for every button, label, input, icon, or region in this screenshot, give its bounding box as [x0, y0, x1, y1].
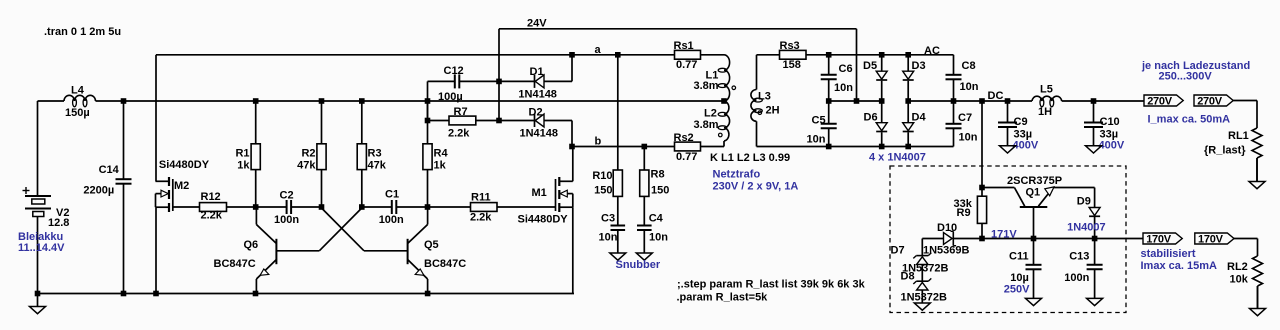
svg-text:D5: D5 [863, 60, 877, 72]
resistor R2 [321, 101, 323, 144]
svg-text:3.8m: 3.8m [694, 80, 719, 92]
net flag 170V load side [1195, 233, 1234, 244]
svg-text:10µ: 10µ [1010, 272, 1029, 284]
junction R9 bottom [979, 236, 985, 242]
svg-text:RL2: RL2 [1227, 261, 1248, 273]
wire M1 source to ground [572, 207, 574, 293]
svg-text:270V: 270V [1197, 95, 1223, 107]
transistor Q5 BC847C [407, 239, 409, 264]
wire D1 to node a [571, 55, 573, 82]
junction transformer center tap [721, 98, 727, 104]
capacitor C10 [1093, 101, 1095, 123]
junction M2 source-ground [153, 291, 159, 297]
junction C14 bottom [121, 291, 127, 297]
svg-text:250V: 250V [1004, 284, 1030, 296]
capacitor C5 [828, 101, 830, 124]
resistor R4 [427, 101, 429, 144]
svg-text:0.77: 0.77 [676, 59, 697, 71]
inductor L4 [64, 95, 96, 101]
dashed box stabiliser [890, 166, 1126, 313]
wire 170V out [1095, 238, 1143, 240]
svg-text:0.77: 0.77 [676, 151, 697, 163]
resistor R3 [361, 101, 363, 144]
ground flag at battery [37, 294, 39, 307]
ground rail [38, 293, 575, 295]
junction C10 top [1091, 98, 1097, 104]
svg-text:D8: D8 [901, 271, 915, 283]
junction node a / R10 [615, 52, 621, 58]
svg-text:Rs2: Rs2 [674, 132, 694, 144]
capacitor C3 [617, 196, 619, 225]
svg-text:47k: 47k [297, 160, 316, 172]
wire node a row [156, 54, 675, 56]
svg-text:{R_last}: {R_last} [1204, 145, 1246, 157]
resistor Rs1 [675, 50, 701, 59]
wire 270V to RL1 [1233, 100, 1257, 102]
diode D4 1N4007 [907, 101, 909, 123]
svg-text:Imax ca. 15mA: Imax ca. 15mA [1141, 260, 1217, 272]
junction R1 bottom [253, 204, 259, 210]
ground flag D8 [921, 290, 923, 303]
svg-text:C4: C4 [649, 212, 664, 224]
resistor R1 [255, 101, 257, 144]
junction D4 bottom [905, 144, 911, 150]
wire M1 drain to node b [572, 147, 574, 182]
resistor Rs3 [780, 50, 807, 59]
capacitor C11 [1033, 239, 1035, 265]
junction D3 top [905, 52, 911, 58]
resistor R10 [617, 55, 619, 170]
wire D2 to node b [571, 121, 573, 147]
junction D5 top [879, 52, 885, 58]
junction node a / D1 [569, 52, 575, 58]
capacitor C12 [454, 74, 456, 88]
ground flag C10 [1093, 128, 1095, 146]
wire 24V vertical [498, 29, 500, 121]
svg-text:D4: D4 [912, 112, 927, 124]
capacitor C14 [123, 101, 125, 179]
junction R3 bottom [359, 204, 365, 210]
svg-text:DC: DC [988, 90, 1004, 102]
junction C5-C6 mid [826, 98, 832, 104]
capacitor C1 [362, 206, 392, 208]
svg-text:Snubber: Snubber [616, 259, 661, 271]
junction R7 left on C12 branch [425, 118, 431, 124]
svg-text:D10: D10 [937, 222, 957, 234]
inductor L1 primary [724, 55, 730, 101]
ground flag C13 [1094, 269, 1096, 298]
junction C5 bottom [826, 144, 832, 150]
wire L2 bottom to Rs2 [723, 141, 725, 147]
transistor Q1 2SCR375P [982, 187, 1014, 189]
resistor R8 [643, 147, 645, 171]
junction R2 bottom [319, 204, 325, 210]
junction C6 top [826, 52, 832, 58]
junction 24V at bridge mid [854, 98, 860, 104]
svg-text:250...300V: 250...300V [1159, 71, 1213, 83]
svg-text:Rs1: Rs1 [674, 40, 694, 52]
svg-text:150: 150 [651, 184, 669, 196]
svg-text:C2: C2 [280, 190, 294, 202]
wire node b row [572, 146, 675, 148]
junction DC / regulator branch [979, 98, 985, 104]
svg-text:10n: 10n [960, 81, 979, 93]
wire 170V to RL2 [1234, 238, 1258, 240]
resistor RL1 {R_last} [1252, 128, 1262, 158]
svg-text:a: a [595, 44, 602, 56]
svg-text:M2: M2 [174, 180, 189, 192]
diode D6 1N4007 [881, 101, 883, 123]
svg-text:.tran 0 1 2m 5u: .tran 0 1 2m 5u [44, 26, 121, 38]
wire DC to R9 [981, 101, 983, 196]
svg-text:K L1 L2 L3 0.99: K L1 L2 L3 0.99 [710, 152, 790, 164]
svg-text:C1: C1 [385, 189, 399, 201]
svg-text:R10: R10 [592, 170, 612, 182]
wire 12V rail to transformer center tap [96, 100, 725, 102]
junction battery-ground [35, 291, 41, 297]
wire 24V drop to bridge mid [856, 29, 858, 101]
svg-text:D1: D1 [530, 66, 544, 78]
net flag 270V load side [1194, 95, 1233, 106]
wire cross-coupling left diagonal to Q5 base [322, 208, 365, 251]
svg-text:;.step param R_last list 39k 9: ;.step param R_last list 39k 9k 6k 3k [677, 279, 866, 291]
svg-text:4 x 1N4007: 4 x 1N4007 [869, 152, 926, 164]
wire M2 drain to node a [155, 55, 157, 182]
transistor Q6 BC847C [275, 239, 277, 264]
svg-text:150µ: 150µ [65, 107, 90, 119]
net flag 270V output [1144, 95, 1183, 106]
svg-text:Si4480DY: Si4480DY [159, 159, 210, 171]
junction Q1 base / C11 [1031, 236, 1037, 242]
junction R1 top on rail [253, 98, 259, 104]
diode D1 1N4148 [499, 80, 535, 82]
resistor R9 33k [977, 196, 986, 223]
resistor R11 [428, 206, 471, 208]
ground flag C9 [1007, 128, 1009, 146]
svg-text:10n: 10n [959, 132, 978, 144]
ground flag C11 [1033, 269, 1035, 298]
junction D5-D6 mid [879, 98, 885, 104]
svg-text:D9: D9 [1077, 195, 1091, 207]
svg-text:R9: R9 [957, 207, 971, 219]
svg-text:230V / 2 x 9V, 1A: 230V / 2 x 9V, 1A [713, 181, 799, 193]
svg-text:2.2k: 2.2k [470, 212, 492, 224]
svg-text:b: b [595, 136, 602, 148]
svg-text:R3: R3 [368, 147, 382, 159]
svg-text:C8: C8 [962, 60, 976, 72]
svg-text:100n: 100n [274, 214, 299, 226]
svg-text:170V: 170V [1146, 233, 1172, 245]
svg-text:L4: L4 [71, 85, 85, 97]
svg-text:C6: C6 [839, 63, 853, 75]
capacitor C4 [643, 196, 645, 225]
resistor R7 [428, 120, 450, 122]
wire secondary top row AC [806, 54, 954, 56]
svg-text:11..14.4V: 11..14.4V [18, 242, 65, 254]
svg-text:R8: R8 [651, 169, 665, 181]
svg-text:R2: R2 [301, 147, 315, 159]
wire bridge left mid row [829, 100, 882, 102]
wire M2 source to ground [155, 207, 157, 293]
svg-text:100n: 100n [379, 214, 404, 226]
wire L5 to C10 [1062, 100, 1144, 102]
svg-text:Q1: Q1 [1026, 187, 1041, 199]
inductor L2 primary [724, 101, 730, 141]
svg-text:I_max ca. 50mA: I_max ca. 50mA [1148, 114, 1231, 126]
svg-text:Rs3: Rs3 [780, 40, 800, 52]
ground flag RL1 [1256, 158, 1258, 182]
junction R3 top on rail [359, 98, 365, 104]
svg-text:R4: R4 [434, 147, 449, 159]
svg-text:3.8m: 3.8m [694, 119, 719, 131]
svg-text:2.2k: 2.2k [448, 127, 470, 139]
svg-text:R7: R7 [454, 106, 468, 118]
n-mosfet M1 Si4480DY [555, 179, 557, 211]
svg-text:12.8: 12.8 [48, 217, 69, 229]
wire 24V rail top [499, 28, 857, 30]
svg-text:R1: R1 [235, 147, 249, 159]
svg-text:1k: 1k [237, 160, 250, 172]
svg-text:D2: D2 [529, 107, 543, 119]
svg-text:BC847C: BC847C [214, 258, 256, 270]
svg-text:1k: 1k [434, 160, 447, 172]
junction node b / R8 [642, 144, 648, 150]
ground flag C4 [643, 231, 645, 254]
svg-text:C9: C9 [1014, 116, 1028, 128]
svg-text:RL1: RL1 [1228, 130, 1249, 142]
wire C12 branch from rail [427, 81, 429, 120]
capacitor C7 [953, 101, 955, 124]
n-mosfet M2 Si4480DY [172, 179, 174, 211]
svg-text:R11: R11 [471, 191, 491, 203]
ground flag RL2 [1257, 286, 1259, 309]
svg-text:L3: L3 [758, 91, 771, 103]
svg-text:C14: C14 [99, 164, 120, 176]
junction C12 right [496, 79, 502, 85]
resistor R12 [173, 206, 200, 208]
svg-text:D7: D7 [891, 245, 905, 257]
wire L3 top to Rs3 [757, 54, 780, 56]
inductor L5 [1032, 96, 1062, 101]
junction node b / M1 drain [569, 144, 575, 150]
capacitor C13 [1094, 239, 1096, 265]
svg-text:2200µ: 2200µ [83, 184, 114, 196]
svg-text:D6: D6 [864, 112, 878, 124]
junction D9 bottom / C13 [1092, 236, 1098, 242]
capacitor C8 [953, 55, 955, 75]
zener diode D7 1N5372B [921, 239, 923, 256]
svg-text:Q6: Q6 [244, 239, 259, 251]
junction R4 bottom [425, 204, 431, 210]
junction C14 top [121, 98, 127, 104]
wire 171V row [922, 238, 943, 240]
junction Q5 emitter-ground [425, 291, 431, 297]
diode D5 1N4007 [881, 55, 883, 71]
svg-text:C5: C5 [812, 115, 826, 127]
svg-text:170V: 170V [1198, 233, 1224, 245]
wire DC row [908, 100, 1032, 102]
svg-text:10n: 10n [649, 232, 668, 244]
junction C9 top [1005, 98, 1011, 104]
wire 12V rail left [38, 100, 65, 102]
diode D2 1N4148 [534, 114, 536, 127]
wire secondary bottom row [757, 146, 954, 148]
svg-text:171V: 171V [991, 229, 1017, 241]
wire cross-coupling right diagonal to Q6 base [319, 208, 362, 251]
zener diode D8 1N5372B [921, 264, 923, 281]
svg-text:24V: 24V [527, 18, 547, 30]
svg-text:C10: C10 [1100, 116, 1120, 128]
svg-text:1N4007: 1N4007 [1067, 221, 1106, 233]
zener diode D10 1N5369B [952, 231, 954, 245]
resistor RL2 10k [1253, 256, 1263, 286]
junction C7-C8 mid [951, 98, 957, 104]
svg-text:10k: 10k [1230, 274, 1249, 286]
ground flag C3 [617, 231, 619, 254]
junction D6 bottom [879, 144, 885, 150]
svg-text:100n: 100n [1064, 272, 1089, 284]
svg-text:.param R_last=5k: .param R_last=5k [677, 292, 769, 304]
svg-text:10n: 10n [807, 134, 826, 146]
svg-text:M1: M1 [532, 187, 547, 199]
svg-text:1N4148: 1N4148 [518, 88, 557, 100]
svg-text:L5: L5 [1040, 84, 1053, 96]
svg-text:Si4480DY: Si4480DY [518, 214, 569, 226]
svg-text:Netztrafo: Netztrafo [713, 169, 761, 181]
battery V2 Bleiakku [37, 101, 39, 195]
junction R2 top on rail [319, 98, 325, 104]
svg-text:270V: 270V [1147, 95, 1173, 107]
junction R7 right [496, 118, 502, 124]
svg-text:1H: 1H [1038, 106, 1052, 118]
svg-text:R12: R12 [201, 191, 221, 203]
svg-text:D3: D3 [912, 60, 926, 72]
diode D9 1N4007 [1094, 188, 1096, 208]
svg-text:1N4148: 1N4148 [520, 127, 559, 139]
svg-text:2SCR375P: 2SCR375P [1007, 175, 1062, 187]
svg-text:2H: 2H [766, 105, 780, 117]
svg-text:L2: L2 [704, 108, 717, 120]
capacitor C6 [828, 55, 830, 75]
inductor L3 secondary [756, 55, 758, 90]
resistor Rs2 [675, 142, 701, 151]
svg-text:AC: AC [924, 45, 940, 57]
svg-text:150: 150 [594, 184, 612, 196]
capacitor C2 [256, 206, 287, 208]
junction D3-D4 mid [905, 98, 911, 104]
capacitor C9 [1007, 101, 1009, 123]
svg-text:10n: 10n [599, 232, 618, 244]
svg-text:C12: C12 [444, 65, 464, 77]
svg-text:Q5: Q5 [424, 239, 439, 251]
junction R9 top / Q1 collector [979, 185, 985, 191]
svg-text:C3: C3 [601, 212, 615, 224]
junction R4 top on rail [425, 98, 431, 104]
svg-text:47k: 47k [368, 160, 387, 172]
net flag 170V output [1143, 233, 1182, 244]
svg-text:C13: C13 [1069, 251, 1089, 263]
svg-text:2.2k: 2.2k [201, 210, 223, 222]
junction Q6 emitter-ground [253, 291, 259, 297]
svg-text:100µ: 100µ [438, 91, 463, 103]
svg-text:C7: C7 [958, 112, 972, 124]
diode D3 1N4007 [907, 55, 909, 71]
svg-text:1N5372B: 1N5372B [901, 292, 948, 304]
svg-text:158: 158 [783, 59, 801, 71]
svg-text:C11: C11 [1009, 251, 1029, 263]
svg-text:BC847C: BC847C [424, 258, 466, 270]
svg-text:stabilisiert: stabilisiert [1141, 248, 1196, 260]
svg-text:10n: 10n [834, 82, 853, 94]
